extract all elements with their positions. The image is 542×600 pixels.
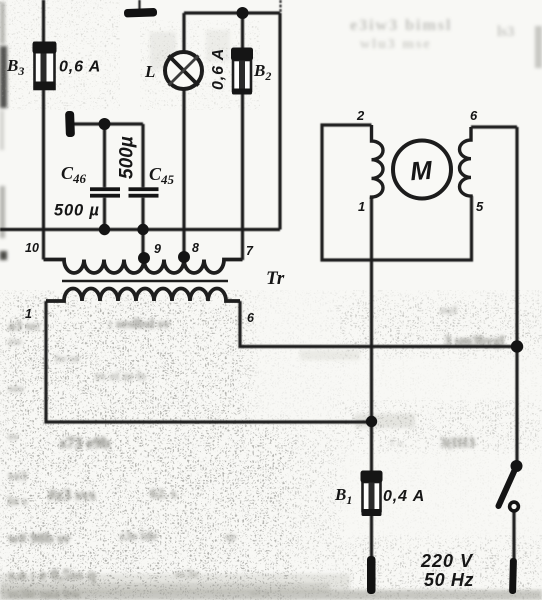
wire motor left loop — [322, 125, 472, 260]
wire top bar stem — [138, 0, 140, 10]
motor M — [393, 141, 451, 199]
fuse B1 — [361, 471, 383, 517]
node terminal 8 — [178, 251, 190, 263]
svg-text:8: 8 — [192, 241, 199, 255]
svg-text:L: L — [144, 62, 155, 81]
switch S — [499, 460, 523, 511]
plug pin right — [509, 558, 517, 594]
terminal pin left — [65, 111, 75, 137]
svg-text:220 V: 220 V — [420, 551, 474, 571]
node terminal 9 — [138, 252, 150, 264]
wire terminal-pin horizontal to capacitors — [70, 122, 143, 125]
svg-text:500µ: 500µ — [117, 136, 138, 179]
wire secondary terminal 1 down and right — [46, 301, 372, 422]
plug pin left — [367, 556, 376, 594]
motor coil 6-5 — [460, 127, 471, 197]
terminal pin top — [124, 8, 157, 18]
svg-text:0,6 A: 0,6 A — [59, 59, 101, 76]
svg-text:0,4 A: 0,4 A — [383, 488, 425, 505]
svg-text:7: 7 — [246, 244, 254, 258]
cut wire stub left edge — [0, 251, 7, 260]
svg-text:wlu3 mse: wlu3 mse — [360, 37, 432, 52]
capacitor C45 — [129, 187, 159, 197]
svg-text:10: 10 — [25, 241, 39, 255]
wire B3 top to transformer terminal 10 — [42, 0, 45, 260]
transformer Tr — [44, 260, 243, 302]
svg-text:Tr: Tr — [266, 268, 285, 289]
wire secondary terminal 6 down and right — [240, 301, 517, 347]
svg-text:500 µ: 500 µ — [54, 202, 100, 220]
wire switch to plug — [512, 511, 515, 560]
svg-text:50 Hz: 50 Hz — [424, 570, 474, 590]
motor coil 2-1 — [372, 125, 384, 199]
wire B2 branch to terminal 7 — [241, 13, 244, 260]
node top B2 junction — [237, 7, 249, 19]
capacitor C46 — [90, 187, 120, 197]
node capacitor top junction — [99, 118, 111, 130]
node supply junction — [366, 416, 377, 427]
svg-text:M: M — [409, 155, 434, 187]
wire top horizontal lamp to right — [184, 11, 280, 14]
wire motor top right — [471, 125, 517, 128]
svg-text:e3iw3 bimsl: e3iw3 bimsl — [350, 17, 452, 34]
node right junction — [511, 340, 523, 352]
svg-text:5: 5 — [476, 199, 484, 214]
node bus C46 — [99, 224, 110, 235]
svg-text:6: 6 — [247, 311, 255, 325]
wire lamp branch — [182, 13, 185, 260]
fuse B3 — [33, 42, 57, 91]
fuse B2 — [231, 48, 253, 95]
wire C46 vertical — [103, 124, 106, 230]
svg-text:6: 6 — [470, 108, 478, 123]
lamp L — [165, 52, 202, 89]
svg-text:1: 1 — [358, 199, 365, 214]
secondary winding terminals 1-6 — [46, 289, 240, 302]
svg-text:1: 1 — [25, 307, 32, 321]
wire motor coil1 down through B1 to plug — [370, 197, 373, 560]
svg-text:9: 9 — [154, 242, 161, 256]
core — [62, 280, 228, 283]
wire C45 vertical — [141, 124, 144, 260]
svg-text:0,6 A: 0,6 A — [210, 48, 227, 90]
node bus C45 — [137, 224, 148, 235]
svg-text:ls3: ls3 — [497, 24, 515, 40]
primary winding terminals 10-9-8-7 — [44, 260, 243, 274]
wire right vertical from top to bus — [278, 13, 281, 230]
svg-text:2: 2 — [356, 108, 365, 123]
wire bus — [0, 228, 280, 231]
wire right vertical to switch — [515, 127, 518, 466]
